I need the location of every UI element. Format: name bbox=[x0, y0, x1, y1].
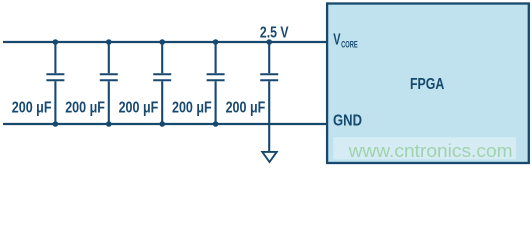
svg-text:200 μF: 200 μF bbox=[226, 99, 266, 116]
svg-text:GND: GND bbox=[333, 112, 362, 129]
svg-text:2.5 V: 2.5 V bbox=[260, 25, 289, 42]
svg-text:CORE: CORE bbox=[341, 40, 358, 50]
svg-text:V: V bbox=[333, 31, 341, 48]
svg-text:FPGA: FPGA bbox=[410, 76, 445, 93]
svg-text:www.cntronics.com: www.cntronics.com bbox=[348, 141, 513, 161]
svg-text:200 μF: 200 μF bbox=[12, 99, 52, 116]
svg-text:200 μF: 200 μF bbox=[65, 99, 105, 116]
svg-text:200 μF: 200 μF bbox=[172, 99, 212, 116]
svg-text:200 μF: 200 μF bbox=[119, 99, 159, 116]
